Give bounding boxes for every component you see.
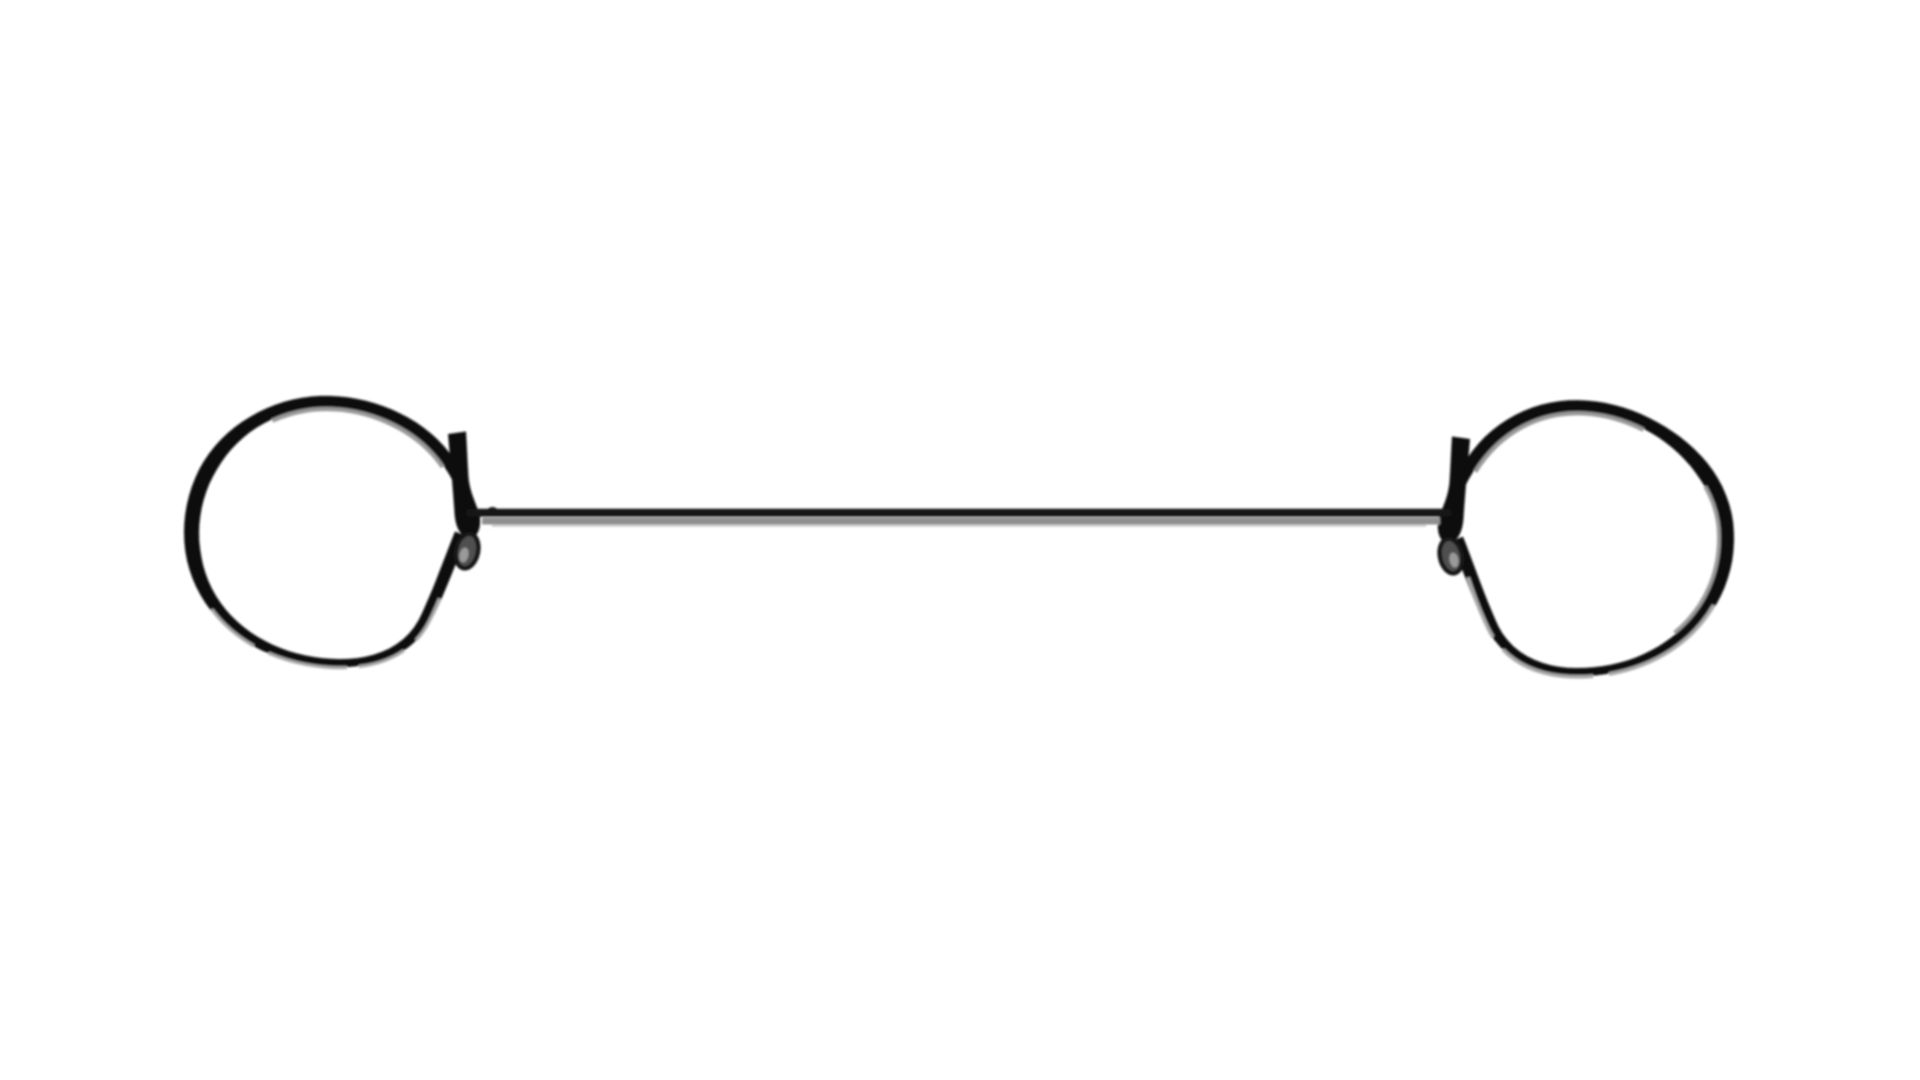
right junction assembly (mirror) xyxy=(1437,437,1470,576)
right ring wire band xyxy=(1451,400,1734,676)
left ring bottom outer gray reflection xyxy=(187,397,464,668)
right ring inner lower-right highlight xyxy=(1466,413,1718,664)
left ring wire band xyxy=(184,396,467,667)
wire end bump on bar near left junction xyxy=(488,507,497,512)
right ring bottom outer gray reflection xyxy=(1454,401,1731,677)
connecting bar dark line xyxy=(470,509,1448,517)
connecting bar lower light edge xyxy=(492,525,1426,527)
left junction assembly xyxy=(448,432,481,571)
right ring inner top highlight xyxy=(1466,413,1718,664)
left ring inner top highlight xyxy=(199,409,451,656)
connecting bar gray highlight xyxy=(482,518,1440,525)
